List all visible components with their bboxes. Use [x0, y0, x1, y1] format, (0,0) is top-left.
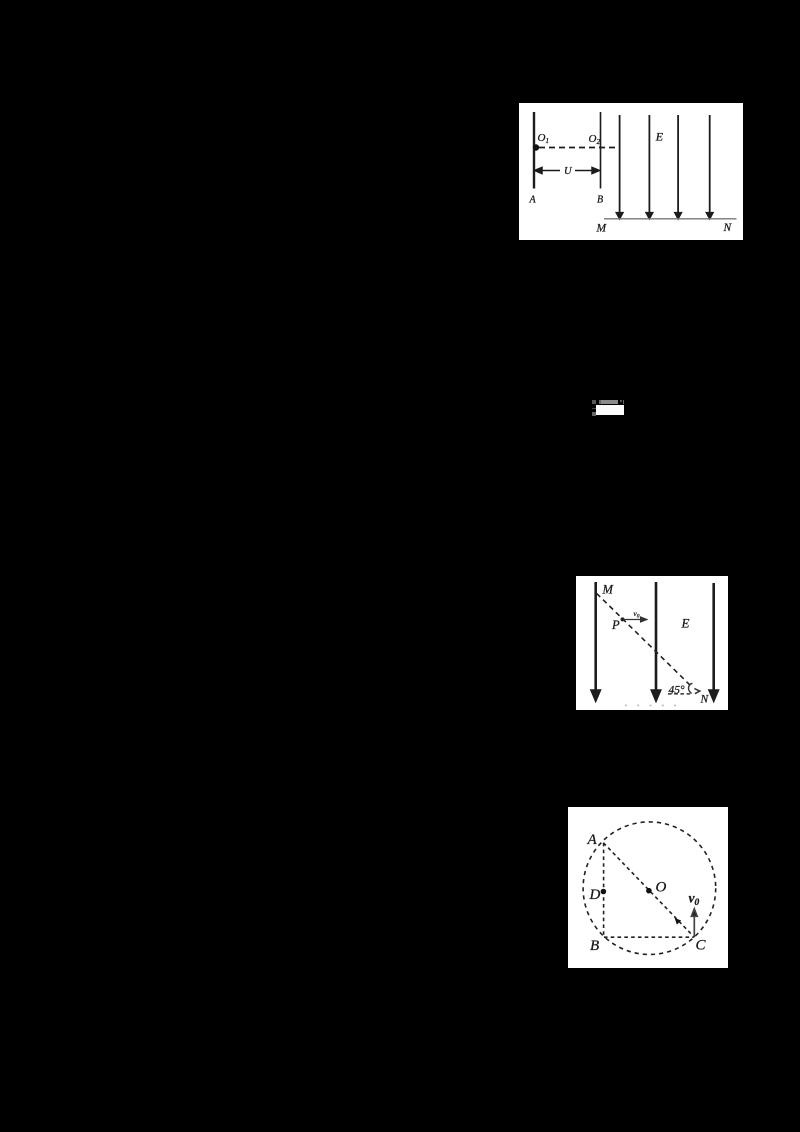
svg-text:B: B — [597, 194, 603, 205]
point P — [621, 617, 625, 621]
figure 1: parallel plates with electron gun and field region — [519, 103, 743, 240]
figure 2: field region with plate M N and 45 degree trajectory — [576, 576, 728, 710]
v0 velocity arrow — [691, 909, 697, 938]
point O — [646, 888, 652, 894]
field line 1 — [617, 115, 713, 219]
svg-text:N: N — [723, 222, 733, 234]
dashed diameter AC — [603, 843, 694, 937]
svg-text:A: A — [529, 194, 537, 205]
field arrow left — [592, 582, 718, 700]
faint dots — [625, 704, 677, 706]
dashed axis line — [539, 147, 616, 149]
dimension arrow U — [535, 167, 600, 173]
dashed trajectory 45 deg — [597, 593, 693, 687]
field line 3 — [677, 115, 679, 214]
field line 4 — [709, 115, 711, 214]
arrowhead on AC toward A — [675, 918, 682, 925]
svg-text:N: N — [700, 694, 710, 706]
field arrow middle — [655, 582, 658, 692]
svg-text:E: E — [655, 129, 664, 143]
dashed chord BC — [604, 936, 694, 938]
svg-text:O: O — [656, 880, 667, 896]
field arrow right — [712, 583, 715, 692]
svg-text:M: M — [596, 223, 608, 235]
svg-text:A: A — [587, 832, 598, 848]
svg-text:v0: v0 — [689, 891, 700, 909]
dashed horizontal with arrow — [668, 689, 700, 694]
plate A (left vertical plate) — [533, 112, 535, 189]
angle arc — [689, 683, 693, 693]
field line 2 — [648, 115, 650, 214]
svg-text:E: E — [681, 616, 690, 631]
figure 3: circle with inscribed right triangle ABC — [568, 807, 728, 968]
svg-text:D: D — [589, 887, 601, 903]
svg-text:O1: O1 — [538, 132, 549, 145]
screen plate MN — [604, 218, 737, 220]
v0 arrow — [623, 617, 647, 622]
dashed chord AB — [603, 843, 605, 937]
svg-text:C: C — [696, 938, 707, 954]
svg-text:P: P — [611, 618, 620, 632]
svg-text:M: M — [602, 583, 614, 597]
svg-text:O2: O2 — [589, 133, 601, 146]
particle dot at O1 — [533, 144, 539, 150]
svg-text:U: U — [564, 166, 573, 177]
plate B (right vertical plate) — [600, 112, 602, 189]
point D — [601, 889, 607, 895]
dashed circle — [583, 822, 716, 955]
formula blob — [592, 400, 596, 404]
svg-text:v0: v0 — [633, 609, 639, 619]
svg-text:B: B — [590, 938, 599, 954]
